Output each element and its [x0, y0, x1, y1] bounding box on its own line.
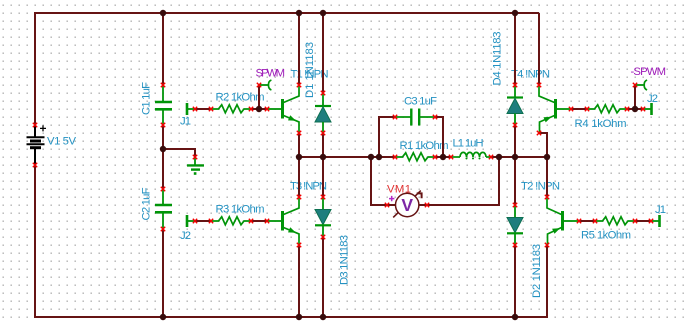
voltage source V1: [27, 125, 47, 165]
wire D4 bottom: [514, 125, 516, 157]
wire T1 collector to top bus: [298, 13, 300, 85]
capacitor C3: [395, 109, 435, 126]
transistor T3: [267, 198, 299, 246]
wire J1 to R2: [195, 108, 211, 110]
resistor R4: [587, 105, 627, 113]
wire left rail upper: [34, 12, 36, 125]
pin markers R3: [209, 219, 213, 223]
junction bottom bus / C2: [160, 314, 166, 320]
inductor L1: [451, 152, 491, 159]
pin marker J2 left: [193, 219, 197, 223]
wire mid bus left section: [299, 156, 395, 158]
svg-text:C3 1uF: C3 1uF: [404, 96, 437, 108]
wire R3 to T3 base: [251, 220, 267, 222]
wire SPWM stem: [258, 85, 260, 109]
wire J2 to R3: [195, 220, 211, 222]
jumper J1 left: [187, 103, 195, 115]
junction mid bus / T1 emitter: [296, 154, 302, 160]
svg-text:-SPWM: -SPWM: [631, 66, 667, 78]
resistor R1: [395, 153, 435, 161]
pin markers T4: [537, 83, 541, 87]
svg-text:R2 1kOhm: R2 1kOhm: [216, 91, 265, 103]
junction ground node: [160, 146, 166, 152]
pin markers D3: [321, 195, 325, 199]
wire D1 bottom: [322, 133, 324, 157]
svg-text:R3 1kOhm: R3 1kOhm: [216, 204, 265, 216]
wire C1 bottom to ground node: [162, 125, 164, 149]
transistor T1: [267, 86, 299, 134]
svg-text:J1: J1: [655, 204, 666, 216]
wire R5 to J1 right: [635, 220, 651, 222]
wire C2 bottom to bottom bus: [162, 229, 164, 317]
svg-text:J2: J2: [180, 230, 191, 242]
wire top bus: [35, 12, 539, 14]
resistor R2: [211, 105, 251, 113]
svg-text:J1: J1: [180, 116, 191, 128]
junction bottom bus / D2: [512, 314, 518, 320]
junction bottom bus / T3 emitter: [296, 314, 302, 320]
wire C1 top: [162, 13, 164, 85]
svg-text:T4 !NPN: T4 !NPN: [511, 69, 550, 81]
pin markers R2: [209, 107, 213, 111]
junction top bus / C1: [160, 10, 166, 16]
pin markers C3: [393, 115, 397, 119]
junction mid bus / D1-D3: [320, 154, 326, 160]
junction SPWM node: [256, 106, 262, 112]
wire C3 left leg: [379, 117, 395, 157]
wire VM1 right leg: [427, 157, 499, 205]
pin marker SPWM: [257, 83, 261, 87]
capacitor C1: [155, 85, 172, 125]
wire T2 base to R5: [579, 220, 595, 222]
wire node to C2 top: [162, 149, 164, 189]
resistor R3: [211, 217, 251, 225]
svg-text:R5 1kOhm: R5 1kOhm: [581, 230, 631, 242]
svg-text:V: V: [401, 195, 413, 215]
wire bottom bus: [35, 316, 547, 318]
wire ground branch: [163, 149, 195, 157]
pin markers D1: [321, 91, 325, 95]
junction bottom bus / D3: [320, 314, 326, 320]
wire T3 emitter to bottom bus: [298, 245, 300, 317]
wire D2 bottom: [514, 245, 516, 317]
pin markers T2: [545, 195, 549, 199]
wire T2 collector: [546, 157, 548, 197]
wire T1 emitter to mid bus: [298, 133, 300, 157]
junction mid bus / D4-D2: [512, 154, 518, 160]
wire -SPWM stem: [634, 85, 636, 109]
wire T2 emitter to bottom bus: [546, 245, 548, 318]
pin markers D4: [513, 83, 517, 87]
junction mid bus / T4-T2: [544, 154, 550, 160]
svg-text:R1 1kOhm: R1 1kOhm: [400, 140, 449, 152]
wire T4 emitter jog: [539, 133, 547, 157]
wire left rail lower: [34, 165, 36, 318]
junction mid bus / VM1 left: [368, 154, 374, 160]
capacitor C2: [155, 189, 172, 229]
node pin -SPWM: [635, 80, 647, 90]
transistor T4: [539, 86, 571, 134]
jumper J1 right: [651, 215, 660, 227]
svg-text:T2 !NPN: T2 !NPN: [521, 181, 560, 193]
pin markers VM1: [385, 203, 389, 207]
diode D1: [315, 93, 331, 133]
pin markers R5: [593, 219, 597, 223]
diode D3: [315, 197, 331, 237]
pin marker J2 right: [641, 107, 645, 111]
wire D3 bottom: [322, 237, 324, 317]
node pin SPWM: [259, 80, 271, 90]
svg-text:D4 1N1183: D4 1N1183: [492, 32, 504, 86]
pin markers V1: [33, 123, 37, 127]
pin markers L1: [449, 155, 453, 159]
pin markers D2: [513, 203, 517, 207]
svg-text:D2 1N1183: D2 1N1183: [531, 244, 543, 298]
junction top bus / T1 collector: [296, 10, 302, 16]
junction mid bus / VM1 right: [496, 154, 502, 160]
svg-text:D1 1N1183: D1 1N1183: [304, 42, 316, 98]
svg-text:SPWM: SPWM: [256, 68, 286, 80]
svg-text:L1 1uH: L1 1uH: [453, 138, 484, 150]
wire T4 collector drop: [538, 13, 540, 85]
wire D4 top: [514, 13, 516, 85]
svg-text:R4 1kOhm: R4 1kOhm: [575, 118, 627, 130]
diode D4: [507, 85, 523, 125]
pin markers R1: [393, 155, 397, 159]
pin marker -SPWM: [633, 83, 637, 87]
wire D2 top: [514, 157, 516, 205]
transistor T2: [547, 198, 579, 246]
junction top bus / D1: [320, 10, 326, 16]
wire mid bus between R1 and L1: [435, 156, 451, 158]
junction mid bus / C3 right: [440, 154, 446, 160]
pin markers C2: [161, 187, 165, 191]
wire R4 to -SPWM node: [627, 108, 643, 110]
wire D3 top: [322, 157, 324, 197]
junction mid bus / C3 left: [376, 154, 382, 160]
wire mid bus right section: [491, 156, 547, 158]
ground: [187, 157, 204, 175]
diode D2: [507, 205, 523, 245]
pin markers C1: [161, 83, 165, 87]
svg-text:C1 1uF: C1 1uF: [141, 82, 153, 115]
wire C3 right leg: [435, 117, 443, 157]
pin marker J1 right: [649, 219, 653, 223]
pin markers T1: [265, 107, 269, 111]
junction top bus / D4: [512, 10, 518, 16]
jumper J2 left: [187, 215, 195, 227]
svg-text:T3 !NPN: T3 !NPN: [290, 181, 327, 193]
wire VM1 left leg: [371, 157, 387, 205]
wire R2 to T1 base node: [251, 108, 267, 110]
wire T4 base to R4: [571, 108, 587, 110]
pin marker ground: [193, 155, 197, 159]
svg-text:V1 5V: V1 5V: [47, 136, 76, 148]
pin marker J1 left: [193, 107, 197, 111]
svg-text:D3 1N1183: D3 1N1183: [339, 235, 351, 285]
wire D1 top: [322, 13, 324, 93]
pin markers R4: [585, 107, 589, 111]
wire T3 collector: [298, 157, 300, 197]
pin markers T3: [265, 219, 269, 223]
jumper J2 right: [643, 103, 652, 115]
svg-text:C2 1uF: C2 1uF: [141, 187, 153, 220]
resistor R5: [595, 217, 635, 225]
junction -SPWM node: [632, 106, 638, 112]
voltmeter VM1: [387, 191, 427, 218]
